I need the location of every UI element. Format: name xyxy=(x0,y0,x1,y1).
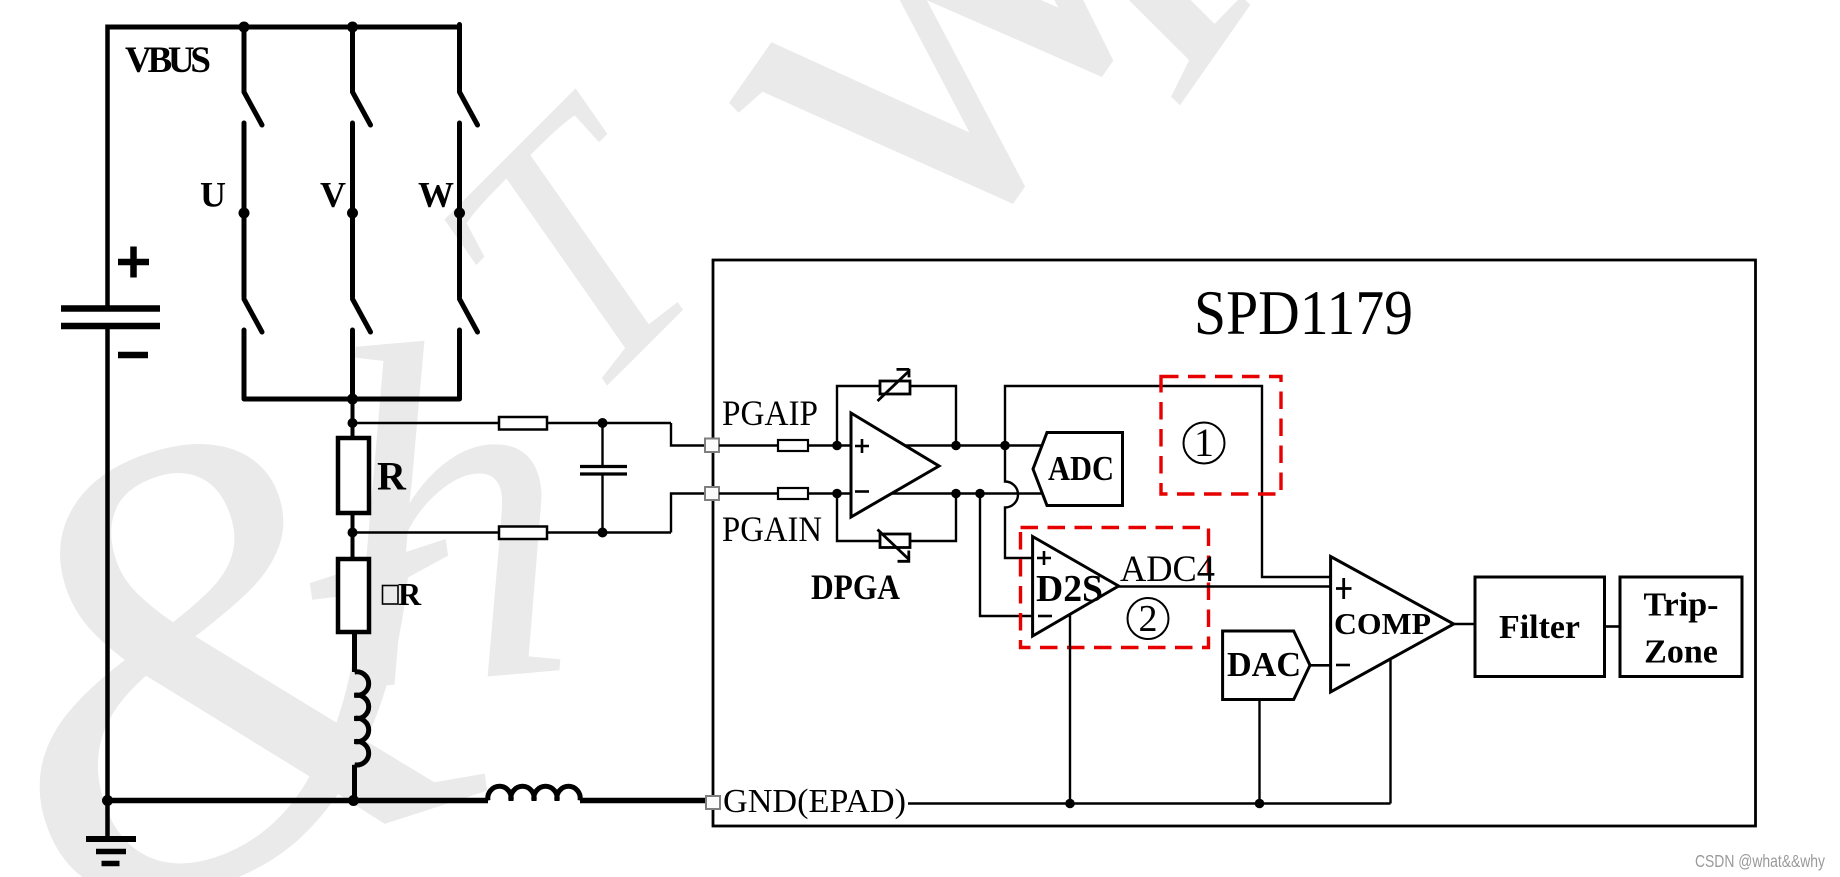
wire R4 to corner xyxy=(547,531,671,533)
wire out+ down to D2S with hop xyxy=(1005,446,1033,559)
svg-text:W: W xyxy=(418,175,454,215)
wire into op-amp - xyxy=(808,492,851,494)
wire PGAIP to dpga xyxy=(719,444,778,446)
node dpga in- xyxy=(832,489,842,499)
wire op-amp out+ xyxy=(904,444,1042,446)
wire into op-amp + xyxy=(808,444,851,446)
node out+ xyxy=(1000,441,1010,451)
switch leg U upper xyxy=(244,27,262,399)
node DAC gnd xyxy=(1255,799,1265,809)
wire Filter to TripZone xyxy=(1605,625,1621,628)
svg-text:1: 1 xyxy=(1194,420,1214,465)
node gnd left xyxy=(102,795,113,806)
D2S triangle xyxy=(1033,537,1119,637)
svg-text:Filter: Filter xyxy=(1499,609,1580,646)
svg-text:Zone: Zone xyxy=(1644,634,1718,671)
Trip-Zone block xyxy=(1620,577,1742,677)
svg-text:DAC: DAC xyxy=(1227,645,1301,684)
wire R3 to corner xyxy=(547,422,671,424)
ADC block xyxy=(1033,433,1123,506)
node shunt-gnd xyxy=(348,795,359,806)
pin GND(EPAD) xyxy=(706,796,720,809)
wire left rail lower xyxy=(105,329,110,801)
SPD1179 box xyxy=(713,260,1756,826)
node mid V xyxy=(347,208,358,219)
svg-text:U: U xyxy=(200,175,226,215)
wire D2S minus to gnd xyxy=(1069,615,1071,804)
svg-text:VBUS: VBUS xyxy=(125,40,211,81)
wire feedback bottom rail xyxy=(837,494,956,542)
resistor small P xyxy=(778,440,808,451)
wire bottom gnd rail left xyxy=(105,798,488,804)
wire R1 to R2 xyxy=(351,513,355,559)
svg-text:PGAIP: PGAIP xyxy=(722,393,818,433)
node bottom V xyxy=(347,394,358,405)
resistor R2 (box R) xyxy=(338,559,369,632)
node mid U xyxy=(239,208,250,219)
resistor small N xyxy=(778,488,808,499)
wire left rail upper xyxy=(105,25,110,306)
Filter block xyxy=(1475,577,1605,677)
variable resistor bottom xyxy=(880,534,910,548)
capacitor C1 xyxy=(601,423,603,466)
ground xyxy=(105,801,110,840)
node top V xyxy=(347,22,358,33)
svg-text:ADC: ADC xyxy=(1048,449,1114,488)
node cap top xyxy=(598,418,608,428)
circled 1 xyxy=(1184,423,1225,464)
circled 2 xyxy=(1128,598,1169,639)
wire tap2 to R4 xyxy=(353,531,500,533)
node top U xyxy=(239,22,250,33)
wire tap to R3 xyxy=(353,422,500,424)
svg-text:ADC4: ADC4 xyxy=(1120,549,1215,590)
wire feedback top rail xyxy=(837,386,956,446)
battery minus label xyxy=(118,352,148,359)
wire corner into PGAIN pin xyxy=(671,494,706,533)
wire COMP out xyxy=(1454,623,1475,626)
wire bridge bottom rail xyxy=(244,397,460,402)
wire V shunt down xyxy=(351,399,355,438)
red dashed box 1 xyxy=(1161,377,1281,495)
svg-text:Trip-: Trip- xyxy=(1644,587,1719,624)
switch leg V upper xyxy=(353,27,371,399)
node D2S gnd xyxy=(1065,799,1075,809)
svg-text:2: 2 xyxy=(1139,598,1158,640)
watermark xyxy=(0,0,1366,877)
wire out- down to D2S minus xyxy=(980,494,1033,617)
svg-text:R: R xyxy=(377,454,407,499)
node cap bottom xyxy=(598,528,608,538)
op-amp U1 DPGA xyxy=(851,413,939,517)
wire DAC to gnd xyxy=(1258,700,1260,804)
wire bottom gnd rail right xyxy=(580,798,706,804)
battery C plate top xyxy=(61,305,160,312)
wire PGAIN to dpga xyxy=(719,492,778,494)
wire coil to gnd rail xyxy=(352,765,357,801)
svg-text:SPD1179: SPD1179 xyxy=(1194,277,1413,348)
svg-text:V: V xyxy=(320,175,346,215)
resistor R4 xyxy=(499,527,547,540)
label box-R xyxy=(383,586,399,605)
wire out+ to box1 and comp xyxy=(1005,386,1331,577)
variable resistor top xyxy=(880,381,910,394)
node mid W xyxy=(454,208,465,219)
pin PGAIP xyxy=(705,439,719,453)
wire corner into PGAIP pin xyxy=(671,423,706,446)
DAC block xyxy=(1223,631,1310,700)
svg-text:CSDN @what&&why: CSDN @what&&why xyxy=(1695,851,1825,871)
wire R2 to coil xyxy=(352,632,357,672)
inductor vertical coil xyxy=(355,672,369,765)
node fb+ xyxy=(951,441,961,451)
inductor horizontal coil xyxy=(488,786,580,800)
resistor R3 xyxy=(499,417,547,430)
node dpga in+ xyxy=(832,441,842,451)
node mid tap xyxy=(348,528,358,538)
resistor R1 (shunt R) xyxy=(338,438,369,513)
svg-text:DPGA: DPGA xyxy=(811,567,900,607)
wire D2S out (ADC4) xyxy=(1119,585,1331,587)
battery plus label xyxy=(118,247,149,278)
svg-text:GND(EPAD): GND(EPAD) xyxy=(723,783,906,820)
battery C plate bottom xyxy=(61,323,160,330)
svg-text:R: R xyxy=(398,576,422,612)
COMP triangle xyxy=(1331,557,1454,693)
wire COMP minus feedback to gnd xyxy=(1389,659,1391,804)
node fb- xyxy=(951,489,961,499)
wire DAC out xyxy=(1310,664,1331,667)
red dashed box 2 xyxy=(1021,528,1209,648)
switch leg W upper xyxy=(460,25,478,400)
svg-text:D2S: D2S xyxy=(1036,568,1103,610)
svg-text:PGAIN: PGAIN xyxy=(722,509,822,549)
wire op-amp out- xyxy=(892,492,1042,494)
svg-text:COMP: COMP xyxy=(1334,606,1431,641)
wire VBUS top rail xyxy=(108,25,460,30)
wire gnd internal xyxy=(908,802,1391,804)
node shunt top tap xyxy=(348,418,358,428)
pin PGAIN xyxy=(705,487,719,500)
node out- branch1 xyxy=(975,489,985,499)
